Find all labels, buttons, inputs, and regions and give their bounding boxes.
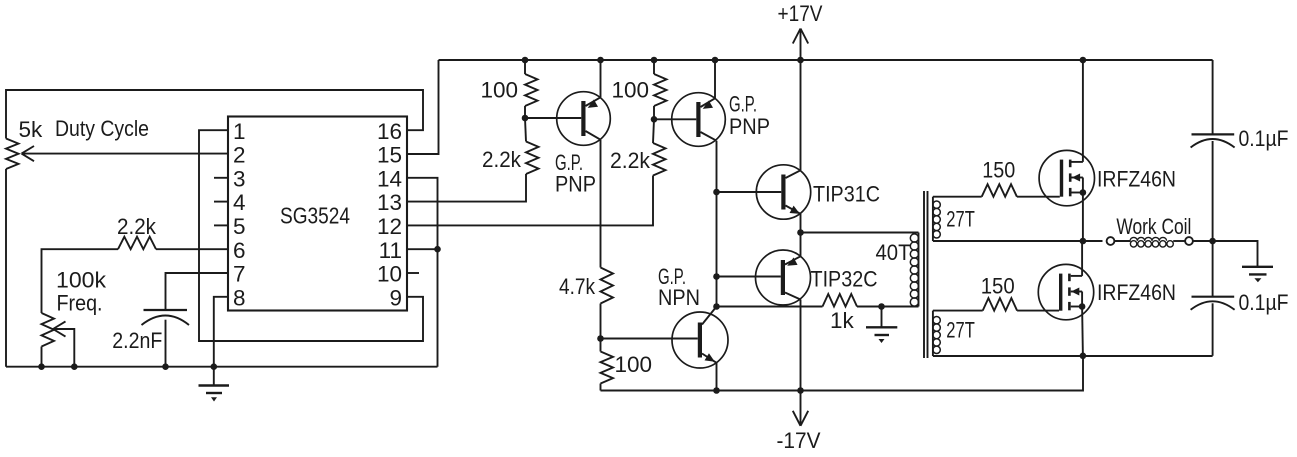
ground rail — [6, 366, 438, 368]
svg-text:G.P.: G.P. — [729, 92, 757, 117]
wire Q2 collector down (base chain) — [716, 141, 718, 307]
wire 150 to M2 gate — [1017, 310, 1059, 312]
wire pin15 to +17V rail — [407, 60, 439, 154]
node B dot divider2 — [651, 116, 658, 123]
+17V rail — [439, 59, 1213, 61]
wire 5k pot bottom to ground rail — [5, 169, 7, 367]
label PNP second — [729, 114, 770, 139]
capacitor 2.2nF top plate — [144, 309, 188, 311]
transistor Q5 emitter arrow — [705, 353, 715, 362]
pin 3 number — [233, 166, 246, 191]
wire to Q3 base — [717, 191, 782, 193]
pin 10 number — [377, 262, 402, 287]
pin 14 number — [377, 166, 402, 191]
wire to Q4 base — [717, 276, 781, 278]
svg-text:2.2k: 2.2k — [482, 147, 522, 172]
node A dot divider1 — [522, 115, 529, 122]
node C dot (Q5 base) — [597, 335, 604, 342]
label TIP32C — [811, 267, 878, 292]
svg-text:+17V: +17V — [778, 1, 823, 26]
+17V supply arrow — [793, 29, 808, 61]
svg-text:16: 16 — [377, 119, 402, 144]
svg-text:4.7k: 4.7k — [559, 274, 596, 299]
transistor Q4 emitter arrow — [787, 258, 797, 266]
capacitor C2 0.1uF flat plate — [1192, 296, 1235, 298]
wire node A to Q1 base — [525, 117, 581, 119]
wire 1k to primary bottom — [857, 306, 919, 308]
potentiometer 100k (freq) — [42, 313, 55, 347]
label 1k — [830, 308, 855, 333]
svg-text:Freq.: Freq. — [57, 291, 103, 316]
work coil right terminal — [1185, 237, 1193, 245]
node dot M1 source / coil line — [1080, 238, 1087, 245]
capacitor C1 0.1uF curved plate — [1191, 139, 1235, 148]
transistor Q1 collector — [586, 131, 601, 140]
wire M2 source to bottom line — [1081, 307, 1084, 356]
potentiometer 5k (duty cycle) — [6, 139, 19, 170]
svg-text:15: 15 — [377, 143, 402, 168]
wire 150 to M1 gate — [1017, 196, 1060, 198]
label 150 second — [981, 274, 1015, 299]
-17V rail — [601, 356, 1084, 391]
wire rail to 100-1 — [524, 60, 526, 74]
wire node C to Q5 base — [601, 338, 698, 340]
label SG3524 — [280, 202, 350, 228]
label 0.1uF top — [1239, 126, 1289, 151]
svg-text:2.2nF: 2.2nF — [112, 328, 162, 353]
node dot +17V rail — [797, 57, 804, 64]
wire node B to 2.2k-2 — [653, 119, 654, 143]
transformer secondary bottom spine — [932, 311, 934, 356]
svg-text:14: 14 — [377, 166, 402, 191]
svg-text:1k: 1k — [830, 308, 855, 333]
resistor 150 first — [982, 184, 1017, 197]
-17V supply arrow — [793, 391, 808, 426]
node dot 100-1 top — [522, 57, 529, 64]
wire pin16 to 5k pot top (VREF) — [6, 90, 423, 139]
svg-text:1: 1 — [233, 119, 246, 144]
wire 5k wiper to pin 2 — [22, 153, 229, 155]
wire node to 1k — [717, 306, 823, 308]
wire C1 to work-coil node — [1212, 141, 1214, 241]
transistor Q1 emitter arrow — [588, 100, 598, 108]
pin 8 number — [233, 285, 246, 310]
svg-text:100: 100 — [611, 78, 649, 103]
svg-text:0.1µF: 0.1µF — [1239, 126, 1289, 151]
transistor Q5 circle — [672, 312, 728, 368]
wire M2 drain to work-coil line — [1081, 241, 1083, 276]
pin 6 number — [233, 238, 246, 263]
node dot 100k wiper on ground rail — [71, 363, 78, 370]
transformer primary winding 40T — [910, 234, 918, 306]
wire pin14 to ground rail — [407, 178, 438, 367]
wire Q1 collector down to 4.7k — [600, 140, 602, 268]
resistor 150 second — [983, 298, 1017, 311]
label 2.2k — [117, 214, 157, 239]
node dot M1 drain rail — [1080, 57, 1087, 64]
pin 7 number — [233, 262, 246, 287]
node dot base chain / Q3 base — [713, 189, 720, 196]
label IRFZ46N first — [1097, 166, 1176, 191]
label Freq. — [57, 291, 103, 316]
bottom line secondary to right edge — [933, 355, 1213, 357]
wire pin1 to pin9 (feedback) — [199, 130, 423, 341]
svg-text:4: 4 — [233, 190, 246, 215]
label 2.2k second — [610, 148, 651, 173]
label 5k — [19, 117, 44, 142]
pin 9 number — [389, 285, 402, 310]
pin 2 number — [233, 143, 246, 168]
label TIP31C — [813, 182, 880, 207]
pin 12 number — [377, 214, 402, 239]
node dot Q5 emitter rail — [713, 387, 720, 394]
label 40T — [876, 240, 911, 265]
label -17V — [777, 428, 821, 453]
svg-text:5: 5 — [233, 214, 246, 239]
transistor Q2 emitter — [701, 98, 716, 107]
label +17V — [778, 1, 823, 26]
transistor Q4 circle — [756, 250, 811, 305]
wire pin13 to first 2.2k — [407, 174, 526, 202]
node dot base chain bottom — [713, 303, 720, 310]
wire C2 to bottom line — [1212, 303, 1214, 356]
transistor Q2 base bar — [696, 102, 700, 137]
svg-text:150: 150 — [982, 158, 1015, 183]
label 150 first — [982, 158, 1015, 183]
label Work Coil — [1116, 214, 1191, 239]
wire pin11 stub — [407, 248, 438, 250]
wire Q3 collector to +17V rail — [800, 60, 802, 170]
label 100 first — [480, 78, 518, 103]
label IRFZ46N second — [1097, 280, 1176, 305]
wire 2.2nF to ground rail — [165, 320, 167, 367]
label 2.2nF — [112, 328, 162, 353]
transformer secondary winding 27T top — [933, 201, 940, 238]
pin 4 number — [233, 190, 246, 215]
resistor 100 (second divider) — [654, 74, 667, 106]
work coil left terminal — [1107, 237, 1115, 245]
pin 15 number — [377, 143, 402, 168]
label 100k — [56, 268, 107, 293]
resistor 2.2k (pin6) — [118, 237, 156, 250]
svg-text:TIP31C: TIP31C — [813, 182, 880, 207]
pin 5 number — [233, 214, 246, 239]
node dot M2 source — [1079, 303, 1086, 310]
resistor 100 (emitter bias) — [601, 352, 614, 384]
5k wiper arrow — [22, 146, 35, 161]
transistor Q2 emitter arrow — [703, 101, 713, 109]
svg-text:100k: 100k — [56, 268, 107, 293]
wire Q4 emitter to node E — [800, 233, 802, 257]
svg-text:8: 8 — [233, 285, 246, 310]
resistor 1k — [823, 294, 858, 307]
pin 3 stub — [214, 177, 228, 179]
capacitor 2.2nF curved plate — [142, 316, 190, 326]
label 4.7k — [559, 274, 596, 299]
wire pin12 to second 2.2k — [407, 176, 653, 226]
inductor work coil — [1130, 237, 1173, 247]
svg-text:5k: 5k — [19, 117, 44, 142]
svg-text:150: 150 — [981, 274, 1015, 299]
wire 4.7k to node C — [600, 304, 602, 339]
MOSFET M1 IRFZ46N — [1039, 150, 1094, 205]
transistor Q4 base bar — [781, 260, 785, 295]
svg-text:-17V: -17V — [777, 428, 821, 453]
node dot primary-bottom ground — [878, 303, 885, 310]
node E dot (emitter junction) — [797, 229, 804, 236]
svg-text:6: 6 — [233, 238, 246, 263]
svg-text:27T: 27T — [946, 207, 975, 232]
svg-text:PNP: PNP — [729, 114, 770, 139]
wire rail to 100-2 — [653, 60, 655, 74]
svg-text:12: 12 — [377, 214, 402, 239]
svg-text:Work Coil: Work Coil — [1116, 214, 1191, 239]
pin 10 stub — [407, 272, 419, 274]
transistor Q3 emitter — [786, 206, 801, 214]
label G.P. first — [555, 150, 583, 175]
wire Q4 collector to -17V rail — [800, 300, 802, 391]
pin 4 stub — [214, 201, 228, 203]
wire secondary to work-coil node — [933, 240, 1103, 242]
wire node C to 100-3 — [600, 339, 602, 352]
resistor 100 (first divider) — [525, 74, 538, 106]
svg-text:11: 11 — [379, 238, 402, 263]
svg-text:NPN: NPN — [658, 285, 700, 310]
svg-text:3: 3 — [233, 166, 246, 191]
wire secondary to 150 second — [933, 310, 983, 312]
wire M1 drain to +17V rail — [1082, 60, 1084, 162]
svg-text:IRFZ46N: IRFZ46N — [1097, 280, 1176, 305]
transistor Q1 base bar — [581, 101, 585, 136]
capacitor C2 0.1uF curved plate — [1191, 301, 1235, 310]
label PNP first — [555, 172, 596, 197]
svg-text:Duty Cycle: Duty Cycle — [55, 116, 149, 141]
label G.P. second — [729, 92, 757, 117]
wire 100-3 to -17V rail — [600, 384, 602, 391]
pin 13 number — [377, 190, 402, 215]
label NPN — [658, 285, 700, 310]
svg-text:7: 7 — [233, 262, 246, 287]
transistor Q3 collector — [786, 170, 801, 178]
wire to work-coil ground — [1213, 241, 1258, 266]
label Duty Cycle — [55, 116, 149, 141]
label 27T top — [946, 207, 975, 232]
node dot base chain / Q4 base — [713, 273, 720, 280]
wire node B to Q2 base — [654, 118, 696, 120]
transistor Q5 collector — [702, 307, 717, 325]
wire secondary to 150 first — [933, 196, 982, 198]
node dot pin11 junction — [434, 246, 441, 253]
label 100 third — [615, 352, 653, 377]
svg-text:TIP32C: TIP32C — [811, 267, 878, 292]
transistor Q3 emitter arrow — [790, 206, 800, 214]
pin 5 stub — [214, 224, 228, 226]
label 0.1uF bottom — [1239, 290, 1289, 315]
wire terminal to right edge — [1193, 240, 1213, 242]
transistor Q2 circle — [672, 93, 726, 147]
node dot pin8/ground — [211, 363, 218, 370]
label 2.2k first — [482, 147, 522, 172]
label G.P. third — [658, 264, 686, 289]
node dot -17V stub — [797, 387, 804, 394]
svg-text:IRFZ46N: IRFZ46N — [1097, 166, 1176, 191]
svg-text:27T: 27T — [946, 318, 975, 343]
ground symbol work coil — [1242, 267, 1273, 282]
node dot 2.2nF on ground rail — [162, 363, 169, 370]
transformer secondary top spine — [932, 197, 934, 241]
resistor 2.2k (first divider) — [526, 142, 539, 175]
node dot M2 source / bottom line — [1080, 353, 1087, 360]
wire 2.2k to 100k pot top — [42, 249, 119, 313]
transistor Q3 circle — [756, 165, 810, 219]
transformer core — [924, 191, 928, 358]
label 100 second — [611, 78, 649, 103]
resistor 4.7k — [601, 268, 614, 304]
MOSFET M2 IRFZ46N — [1038, 264, 1093, 319]
svg-text:0.1µF: 0.1µF — [1239, 290, 1289, 315]
transformer secondary winding 27T bottom — [933, 317, 940, 354]
pin 1 number — [233, 119, 246, 144]
pin 16 number — [377, 119, 402, 144]
wire terminal to coil — [1114, 240, 1185, 242]
node dot M1 source — [1080, 189, 1087, 196]
transistor Q1 circle — [557, 92, 611, 146]
IC U1 SG3524 body — [228, 117, 407, 311]
transistor Q3 base bar — [781, 175, 785, 210]
wire node E to primary top — [801, 232, 919, 234]
svg-text:9: 9 — [389, 285, 402, 310]
wire node A to 2.2k-1 — [525, 118, 526, 142]
transistor Q5 emitter — [702, 354, 717, 363]
ground symbol under IC — [199, 367, 230, 402]
wire Q2 emitter to rail — [714, 60, 716, 98]
wire pin8 down to ground rail — [214, 297, 228, 367]
wire M1 source to work-coil line — [1082, 193, 1084, 242]
wire pin7 to 2.2nF — [166, 273, 229, 309]
node dot Q1 emitter rail — [597, 57, 604, 64]
svg-text:2.2k: 2.2k — [610, 148, 651, 173]
svg-text:2.2k: 2.2k — [117, 214, 157, 239]
transformer primary spine — [918, 233, 920, 307]
svg-text:13: 13 — [377, 190, 402, 215]
label 27T bottom — [946, 318, 975, 343]
svg-text:2: 2 — [233, 143, 246, 168]
svg-text:40T: 40T — [876, 240, 911, 265]
100k wiper arm — [53, 329, 74, 367]
transistor Q4 emitter — [785, 256, 801, 264]
pin 11 number — [379, 238, 402, 263]
wire 100-2 to node B — [653, 106, 655, 119]
resistor 2.2k (second divider) — [653, 143, 666, 176]
transistor Q2 collector — [701, 132, 717, 141]
transistor Q1 emitter — [586, 97, 601, 106]
svg-text:10: 10 — [377, 262, 402, 287]
wire pin6 to 2.2k — [156, 248, 228, 250]
node dot 100k bottom on ground rail — [38, 363, 45, 370]
wire Q3 emitter to node E — [800, 214, 802, 233]
wire Q1 emitter to rail — [600, 60, 602, 97]
node dot work coil / bypass — [1209, 238, 1216, 245]
wire work-coil node to C2 — [1212, 241, 1214, 297]
node dot Q2 emitter rail — [712, 57, 719, 64]
ground symbol under 1k — [866, 307, 897, 344]
wire Q5 emitter to -17V rail — [716, 363, 718, 391]
wire 100-1 to node A — [524, 106, 526, 118]
svg-text:SG3524: SG3524 — [280, 202, 350, 228]
node dot 100-2 top — [651, 57, 658, 64]
transistor Q5 base bar — [698, 323, 702, 358]
transistor Q4 collector — [785, 293, 801, 300]
capacitor C1 0.1uF flat plate — [1192, 133, 1235, 135]
svg-text:PNP: PNP — [555, 172, 596, 197]
svg-text:100: 100 — [615, 352, 653, 377]
100k wiper arrow — [53, 321, 66, 336]
svg-text:100: 100 — [480, 78, 518, 103]
wire 100k bottom to ground rail — [41, 347, 43, 367]
wire +17V rail to C1 — [1212, 60, 1214, 134]
